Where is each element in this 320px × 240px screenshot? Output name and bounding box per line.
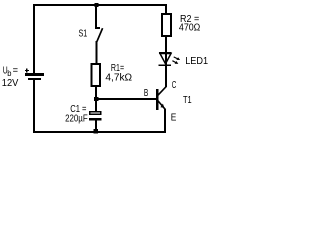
wire bottom rail xyxy=(33,131,166,133)
wire left rail upper xyxy=(33,4,35,73)
wire C1 to bottom rail xyxy=(95,121,97,132)
wire S1 to R1 xyxy=(96,41,98,64)
battery U_b xyxy=(25,68,44,79)
node junction bottom xyxy=(93,129,98,134)
capacitor C1 xyxy=(89,112,101,121)
svg-text:LED1: LED1 xyxy=(185,56,208,67)
svg-text:C: C xyxy=(172,80,177,91)
resistor R2 xyxy=(162,14,171,36)
svg-text:T1: T1 xyxy=(183,95,192,106)
svg-text:220µF: 220µF xyxy=(65,113,88,124)
resistor R1 xyxy=(92,64,101,86)
svg-text:S1: S1 xyxy=(79,29,88,40)
wire emitter to bottom rail xyxy=(164,109,166,132)
wire base horizontal xyxy=(95,98,156,100)
svg-text:=: = xyxy=(13,66,19,77)
switch S1 xyxy=(95,27,103,42)
wire left rail lower xyxy=(33,79,35,133)
svg-text:470Ω: 470Ω xyxy=(179,23,201,34)
wire node to C1 xyxy=(95,100,97,111)
node junction base xyxy=(94,97,98,101)
svg-text:E: E xyxy=(171,112,177,123)
wire LED to collector xyxy=(165,52,167,87)
wire top right corner to R2 xyxy=(165,6,167,13)
node junction at S1 top xyxy=(95,3,99,7)
svg-text:b: b xyxy=(7,69,12,78)
transistor T1 xyxy=(156,86,166,110)
svg-text:B: B xyxy=(144,88,149,99)
wire R2 to LED xyxy=(165,37,167,52)
wire R1 to node xyxy=(95,87,97,98)
LED LED1 xyxy=(159,52,181,66)
svg-text:4,7kΩ: 4,7kΩ xyxy=(105,72,132,83)
wire S1 upper xyxy=(95,6,97,27)
wire top rail xyxy=(33,4,167,6)
svg-text:12V: 12V xyxy=(2,78,19,89)
